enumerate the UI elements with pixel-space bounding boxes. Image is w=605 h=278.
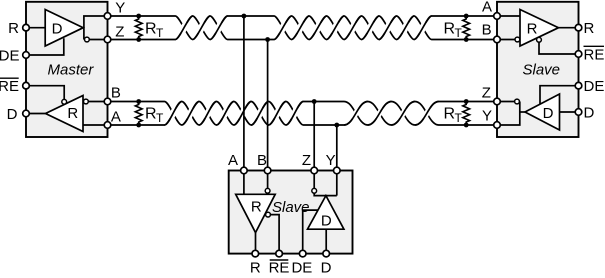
wire bubble to Z pin (Master) — [89, 39, 107, 41]
wire R pin to driver input (Master) — [26, 27, 45, 29]
junction stub B — [265, 37, 270, 42]
op-amp receiver R (Master) — [46, 96, 84, 132]
pin R (Slave bottom) — [252, 250, 259, 257]
svg-text:DE: DE — [0, 47, 20, 64]
op-amp driver D (Slave right) — [525, 94, 560, 130]
twisted pair over/under crossings — [181, 23, 426, 33]
pin RE (Slave bottom) — [276, 250, 283, 257]
pin R (Master) — [23, 24, 30, 31]
svg-text:DE: DE — [584, 78, 605, 95]
wire B pin to receiver (Master) — [88, 101, 107, 103]
resistor RT top-left — [135, 16, 142, 39]
op-amp receiver R (Slave bottom) — [236, 194, 276, 232]
op-amp driver D (Slave bottom) — [308, 196, 344, 230]
svg-text:Slave: Slave — [272, 199, 310, 216]
wire DE enable (Slave bottom) — [303, 210, 318, 254]
op-amp driver D (Master) — [45, 10, 83, 47]
svg-text:T: T — [156, 26, 164, 40]
bubble RE on receiver (Slave right) — [537, 37, 542, 42]
wire RE enable (Master) — [26, 86, 64, 100]
wire driver output bar (Slave bottom) — [314, 193, 337, 195]
svg-text:D: D — [543, 105, 554, 122]
pin R (Slave right) — [575, 24, 582, 31]
pin DE (Master) — [23, 52, 30, 59]
pin D (Slave right) — [575, 109, 582, 116]
bubble B input (Slave right) — [515, 37, 520, 42]
wire A pin into receiver (Slave bottom) — [243, 171, 245, 195]
svg-text:RE: RE — [269, 260, 290, 274]
wire receiver output to R pin (Slave right) — [559, 27, 579, 29]
wire A pin to receiver (Master) — [83, 124, 108, 126]
resistor RT bottom-left — [135, 102, 142, 125]
pin Y (Slave bottom) — [334, 167, 341, 174]
pin A (Slave bottom) — [241, 167, 248, 174]
bubble RE on receiver (Slave bottom) — [266, 212, 271, 217]
svg-text:Y: Y — [326, 152, 336, 169]
wire DE enable (Master) — [26, 38, 64, 55]
resistor RT top-right — [463, 16, 470, 39]
junction stub Y — [334, 123, 339, 128]
wire apex to bar (Slave right) — [520, 111, 525, 113]
wire RE enable (Slave right) — [539, 43, 579, 55]
pin A (Slave right) — [494, 13, 501, 20]
wire: top bus line 1 (Y..A) with twists — [108, 16, 498, 40]
wire: bottom bus line 1 (B..Z) with twists — [108, 102, 498, 126]
junction RT-BR bottom — [464, 123, 469, 128]
svg-text:T: T — [455, 111, 463, 125]
svg-text:R: R — [145, 106, 157, 123]
wire B pin to bubble (Slave bottom) — [267, 171, 269, 189]
IC box Master — [26, 2, 108, 137]
pin A (Master) — [104, 122, 111, 129]
svg-text:RE: RE — [584, 46, 605, 63]
svg-text:D: D — [321, 260, 332, 274]
pin DE (Slave right) — [575, 82, 582, 89]
svg-text:R: R — [67, 105, 78, 122]
junction RT-BL top — [136, 99, 141, 104]
wire: top bus line 2 (Z..B) with twists — [108, 16, 498, 40]
wire D pin to driver input (Slave right) — [560, 111, 579, 113]
wire receiver output to R pin (Slave bottom) — [255, 233, 257, 254]
resistor RT bottom-right — [463, 102, 470, 125]
pin Z (Slave bottom) — [311, 167, 318, 174]
bubble B input (Slave bottom) — [265, 188, 270, 193]
wire driver output bar to Y (Master) — [84, 16, 108, 40]
pin D (Master) — [23, 110, 30, 117]
pin Z (Slave right) — [494, 98, 501, 105]
junction RT-BR top — [464, 99, 469, 104]
wire RE enable (Slave bottom) — [270, 215, 279, 254]
bubble Z output (Slave bottom) — [312, 188, 317, 193]
wire Z pin to bubble (Slave right) — [497, 101, 515, 103]
junction RT-TR top — [464, 14, 469, 19]
wire Y pin to output bar (Slave bottom) — [336, 171, 338, 196]
svg-text:T: T — [455, 26, 463, 40]
svg-text:R: R — [8, 20, 19, 37]
svg-text:Z: Z — [302, 152, 311, 169]
pin B (Master) — [104, 98, 111, 105]
pin DE (Slave bottom) — [299, 250, 306, 257]
wire: stub drop A — [243, 16, 245, 171]
svg-text:B: B — [482, 22, 492, 39]
svg-text:T: T — [156, 111, 164, 125]
pin B (Slave right) — [494, 36, 501, 43]
svg-text:R: R — [251, 199, 262, 216]
junction RT-BL bottom — [136, 123, 141, 128]
wire driver output bar to Y (Slave right) — [497, 102, 520, 126]
pin Z (Master) — [104, 36, 111, 43]
svg-text:R: R — [250, 260, 261, 274]
svg-text:DE: DE — [291, 260, 312, 274]
junction RT-TL top — [136, 14, 141, 19]
wire: stub drop Z — [313, 102, 315, 171]
wire D pin to receiver output (Master) — [26, 113, 46, 115]
svg-text:RE: RE — [0, 78, 19, 95]
junction stub Z — [312, 99, 317, 104]
pin Y (Master) — [104, 13, 111, 20]
wire DE enable (Slave right) — [540, 86, 579, 105]
svg-text:B: B — [257, 152, 267, 169]
svg-text:A: A — [111, 108, 121, 125]
svg-text:B: B — [111, 84, 121, 101]
wire: stub drop B — [267, 40, 269, 171]
wire D pin to driver input (Slave bottom) — [325, 229, 327, 253]
svg-text:Slave: Slave — [523, 62, 561, 79]
svg-text:Y: Y — [482, 108, 492, 125]
bubble B input (Master) — [84, 99, 89, 104]
pin B (Slave bottom) — [264, 167, 271, 174]
pin RE (Master) — [23, 82, 30, 89]
svg-text:R: R — [527, 21, 538, 38]
svg-text:A: A — [228, 152, 238, 169]
svg-text:Z: Z — [115, 24, 124, 41]
pin RE (Slave right) — [575, 51, 582, 58]
svg-text:R: R — [444, 106, 456, 123]
junction RT-TL bottom — [136, 37, 141, 42]
IC box Slave (right) — [497, 2, 579, 137]
wire: stub drop Y — [336, 125, 338, 171]
junction stub A — [242, 14, 247, 19]
wire: bottom bus line 2 (A..Y) with twists — [108, 102, 498, 126]
svg-text:D: D — [7, 106, 18, 123]
svg-text:D: D — [584, 104, 595, 121]
wire Z pin to bubble (Slave bottom) — [313, 171, 315, 189]
svg-text:R: R — [145, 21, 157, 38]
pin Y (Slave right) — [494, 122, 501, 129]
op-amp receiver R (Slave right) — [520, 10, 559, 47]
svg-text:D: D — [321, 212, 332, 229]
svg-text:Y: Y — [115, 0, 125, 17]
svg-text:R: R — [444, 21, 456, 38]
svg-text:Z: Z — [482, 84, 491, 101]
svg-text:Master: Master — [48, 62, 95, 79]
svg-text:R: R — [584, 20, 595, 37]
wire B pin to bubble (Slave right) — [497, 39, 515, 41]
junction RT-TR bottom — [464, 37, 469, 42]
bubble Z output (Slave right) — [515, 99, 520, 104]
bubble Z output (Master) — [85, 37, 90, 42]
bubble RE on receiver (Master) — [62, 99, 67, 104]
wire A pin to receiver (Slave right) — [497, 15, 520, 17]
svg-text:D: D — [52, 21, 63, 38]
svg-text:A: A — [482, 0, 492, 16]
IC box Slave (bottom) — [229, 171, 353, 254]
pin D (Slave bottom) — [323, 250, 330, 257]
